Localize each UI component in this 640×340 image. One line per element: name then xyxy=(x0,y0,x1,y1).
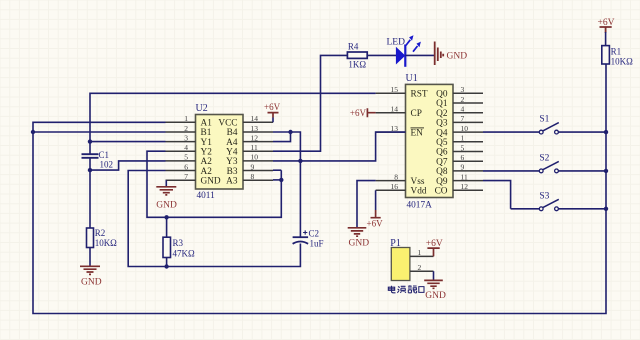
U1 pin 10 (Q4) stub xyxy=(453,131,483,133)
U1 pin 3 (Q0) stub xyxy=(453,92,483,94)
IC U2 4011 body xyxy=(196,115,244,190)
svg-text:10KΩ: 10KΩ xyxy=(611,56,633,66)
svg-text:Y1: Y1 xyxy=(201,138,213,148)
svg-text:+6V: +6V xyxy=(367,219,384,229)
svg-text:6: 6 xyxy=(461,153,465,162)
svg-text:CO: CO xyxy=(435,187,448,197)
svg-text:+6V: +6V xyxy=(598,18,615,28)
svg-text:12: 12 xyxy=(251,133,259,142)
svg-text:A3: A3 xyxy=(226,176,238,186)
junction R3 bottom xyxy=(164,264,168,268)
svg-text:Vdd: Vdd xyxy=(411,187,427,197)
power +6V at U2 VCC xyxy=(268,113,279,118)
svg-text:B3: B3 xyxy=(227,167,238,177)
svg-text:Q0: Q0 xyxy=(436,90,448,100)
svg-text:S2: S2 xyxy=(539,153,549,163)
svg-text:8: 8 xyxy=(251,172,255,181)
switch S2 xyxy=(483,170,539,172)
svg-text:1uF: 1uF xyxy=(310,238,324,248)
svg-text:4: 4 xyxy=(184,143,188,152)
wire Y3 to U1 EN xyxy=(273,132,406,161)
svg-text:1KΩ: 1KΩ xyxy=(348,59,366,69)
U2 pin 11 (Y4) stub xyxy=(243,150,273,152)
wire U2 pin6 down and right to C2 bottom xyxy=(128,171,300,267)
svg-text:10KΩ: 10KΩ xyxy=(95,238,117,248)
power +6V at R1 xyxy=(600,27,612,33)
U1 pin 11 (Q9) stub xyxy=(453,180,483,182)
svg-text:CP: CP xyxy=(411,109,422,119)
svg-text:VCC: VCC xyxy=(218,119,237,129)
svg-text:+6V: +6V xyxy=(350,108,367,118)
U2 pin 8 (A3) stub xyxy=(243,179,273,181)
P1 pin 1 xyxy=(410,255,434,257)
U2 pin 13 (B4) stub xyxy=(243,131,273,133)
U1 pin 6 (Q7) stub xyxy=(453,160,483,162)
U1 pin 8 (Vss) stub xyxy=(376,180,406,182)
resistor R3 47K xyxy=(163,237,171,257)
svg-text:13: 13 xyxy=(251,124,259,133)
switch S3 xyxy=(511,208,540,210)
switch S1 xyxy=(483,131,539,133)
U2 pin 7 (GND) stub xyxy=(166,179,196,181)
resistor R1 10K xyxy=(602,46,610,64)
svg-text:9: 9 xyxy=(251,162,255,171)
wire U1 Q9 to S3 xyxy=(483,181,511,209)
svg-text:9: 9 xyxy=(461,163,465,172)
svg-text:4: 4 xyxy=(461,105,465,114)
wire U2 pin3 Y1 to RST net xyxy=(90,141,166,143)
U1 pin 2 (Q1) stub xyxy=(453,102,483,104)
wire to R3 top xyxy=(166,217,168,237)
U2 pin 5 (A2) stub xyxy=(166,160,196,162)
svg-text:102: 102 xyxy=(100,160,114,170)
wire R3 bottom xyxy=(166,258,168,267)
svg-text:11: 11 xyxy=(461,172,468,181)
wire VCC riser xyxy=(272,118,274,123)
wire R4 to LED xyxy=(367,54,396,56)
wire U2 pin5 jog to C1/R2 node xyxy=(90,161,166,170)
resistor R2 10K xyxy=(87,228,94,248)
svg-text:Y3: Y3 xyxy=(226,157,238,167)
svg-text:A1: A1 xyxy=(201,119,213,129)
U2 pin 12 (A4) stub xyxy=(243,141,273,143)
svg-text:3: 3 xyxy=(184,133,188,142)
svg-text:S1: S1 xyxy=(539,115,549,125)
svg-text:GND: GND xyxy=(156,201,177,211)
svg-text:7: 7 xyxy=(461,114,465,123)
svg-text:B1: B1 xyxy=(201,128,212,138)
capacitor C2 1uF xyxy=(293,236,309,238)
wire A4 riser to B4 xyxy=(273,132,291,142)
svg-text:R4: R4 xyxy=(348,42,359,52)
svg-text:EN: EN xyxy=(411,128,424,138)
junction Y1/RST/C1 node xyxy=(88,139,92,143)
wire pin1 left rail bottom rail to R1 xyxy=(33,64,606,314)
wire Vss to ground xyxy=(357,181,376,228)
svg-text:A2: A2 xyxy=(201,157,213,167)
svg-text:+6V: +6V xyxy=(264,102,281,112)
connector P1 body xyxy=(391,248,410,281)
IC U1 4017A body xyxy=(406,84,454,197)
wire Y4 up to R4 xyxy=(273,55,347,151)
wire B4 right and down to C2 xyxy=(273,132,300,237)
svg-text:R3: R3 xyxy=(173,238,184,248)
ground U2 pin7 xyxy=(165,180,167,187)
U1 pin 12 (CO) stub xyxy=(453,189,483,191)
ground below R2 xyxy=(80,266,100,274)
svg-text:Q6: Q6 xyxy=(436,148,448,158)
svg-text:GND: GND xyxy=(201,176,221,186)
svg-text:7: 7 xyxy=(184,172,188,181)
U1 pin 15 (RST) stub xyxy=(376,92,406,94)
wire +6V to R1 xyxy=(605,32,607,46)
U2 pin 4 (Y2) stub xyxy=(166,150,196,152)
svg-text:8: 8 xyxy=(394,172,398,181)
junction A4/B4 xyxy=(288,130,292,134)
U1 pin 1 (Q5) stub xyxy=(453,141,483,143)
svg-text:+6V: +6V xyxy=(426,239,443,249)
svg-text:Q3: Q3 xyxy=(436,119,448,129)
U1 pin 9 (Q8) stub xyxy=(453,170,483,172)
ground U1 Vss xyxy=(348,228,367,236)
U2 pin 10 (Y3) stub xyxy=(243,160,273,162)
svg-text:11: 11 xyxy=(251,143,258,152)
junction pin1/pin2 rail xyxy=(31,130,35,134)
U1 pin 7 (Q3) stub xyxy=(453,121,483,123)
U1 pin 16 (Vdd) stub xyxy=(376,189,406,191)
wire C1 bottom down to R2 xyxy=(89,158,91,228)
svg-text:10: 10 xyxy=(251,153,259,162)
svg-text:15: 15 xyxy=(391,85,399,94)
svg-text:S3: S3 xyxy=(539,191,549,201)
wire LED cathode to GND xyxy=(405,54,434,56)
svg-text:3: 3 xyxy=(461,85,465,94)
U2 pin 3 (Y1) stub xyxy=(166,141,196,143)
svg-text:GND: GND xyxy=(349,239,370,249)
svg-text:Q8: Q8 xyxy=(436,167,448,177)
wire Y2 to R3 top to B3 xyxy=(147,151,281,217)
svg-text:Q4: Q4 xyxy=(436,128,448,138)
power +6V at U1 CP xyxy=(367,108,375,117)
resistor R4 1K xyxy=(347,52,367,58)
U1 pin 14 (CP) stub xyxy=(376,112,406,114)
svg-text:Y2: Y2 xyxy=(201,147,213,157)
svg-text:GND: GND xyxy=(425,291,446,301)
power +6V at U1 Vdd xyxy=(371,210,381,218)
svg-text:2: 2 xyxy=(418,263,422,272)
wire U2 pin9 B3 link xyxy=(273,169,281,171)
wire RST net: U1 pin15 left, down to C1 xyxy=(90,93,376,153)
svg-text:C2: C2 xyxy=(309,229,320,239)
P1 pin 2 xyxy=(410,270,434,272)
junction R3 top xyxy=(164,215,168,219)
svg-text:A4: A4 xyxy=(226,138,238,148)
svg-text:Q2: Q2 xyxy=(436,109,448,119)
svg-text:6: 6 xyxy=(184,162,188,171)
svg-text:Q7: Q7 xyxy=(436,157,448,167)
U2 pin 6 (A2) stub xyxy=(166,170,196,172)
svg-text:GND: GND xyxy=(81,278,102,288)
junction A3 node xyxy=(279,178,283,182)
svg-text:GND: GND xyxy=(447,51,468,61)
svg-text:LED: LED xyxy=(387,38,406,48)
U2 pin 9 (B3) stub xyxy=(243,170,273,172)
junction pin5/C1/R2 node xyxy=(88,168,92,172)
svg-text:14: 14 xyxy=(251,114,259,123)
U2 pin 2 (B1) stub xyxy=(166,131,196,133)
svg-text:2: 2 xyxy=(184,124,188,133)
svg-text:RST: RST xyxy=(411,90,428,100)
svg-text:R2: R2 xyxy=(95,228,106,238)
svg-text:U2: U2 xyxy=(196,103,208,114)
svg-text:16: 16 xyxy=(391,182,399,191)
label 电源端口 (power port) xyxy=(388,285,424,293)
svg-text:12: 12 xyxy=(461,182,469,191)
svg-text:14: 14 xyxy=(391,105,399,114)
wire R2 to ground xyxy=(89,248,91,267)
wire Vdd down xyxy=(375,190,377,210)
svg-text:2: 2 xyxy=(461,95,465,104)
svg-text:4017A: 4017A xyxy=(407,201,433,211)
U1 pin 4 (Q2) stub xyxy=(453,112,483,114)
U1 pin 5 (Q6) stub xyxy=(453,151,483,153)
svg-text:5: 5 xyxy=(184,153,188,162)
svg-text:P1: P1 xyxy=(390,238,401,249)
svg-text:47KΩ: 47KΩ xyxy=(173,248,195,258)
svg-text:5: 5 xyxy=(461,143,465,152)
svg-text:B4: B4 xyxy=(227,128,238,138)
svg-text:A2: A2 xyxy=(201,167,213,177)
power +6V at P1 pin1 xyxy=(427,248,439,256)
wire U2 pin8 A3 link xyxy=(273,179,281,181)
svg-text:R1: R1 xyxy=(611,47,622,57)
power ground bar at LED xyxy=(435,42,444,66)
svg-text:1: 1 xyxy=(184,114,188,123)
svg-text:Q5: Q5 xyxy=(436,138,448,148)
svg-text:1: 1 xyxy=(461,134,465,143)
svg-text:U1: U1 xyxy=(406,73,418,84)
U1 pin 13 (EN) stub xyxy=(376,131,406,133)
U2 pin 14 (VCC) stub xyxy=(243,121,273,123)
wire U2 pin2 to left rail xyxy=(33,131,166,133)
svg-text:Q1: Q1 xyxy=(436,99,448,109)
svg-text:10: 10 xyxy=(461,124,469,133)
capacitor C1 xyxy=(82,154,99,158)
junction C2 riser on Y3-EN wire xyxy=(298,159,302,163)
svg-text:Q9: Q9 xyxy=(436,177,448,187)
ground at P1 pin2 xyxy=(433,271,435,280)
svg-text:Y4: Y4 xyxy=(226,147,238,157)
svg-text:Vss: Vss xyxy=(411,177,425,187)
U2 pin 1 (A1) stub xyxy=(166,121,196,123)
LED diode xyxy=(396,47,405,65)
svg-text:1: 1 xyxy=(418,248,422,257)
svg-text:4011: 4011 xyxy=(197,191,216,201)
